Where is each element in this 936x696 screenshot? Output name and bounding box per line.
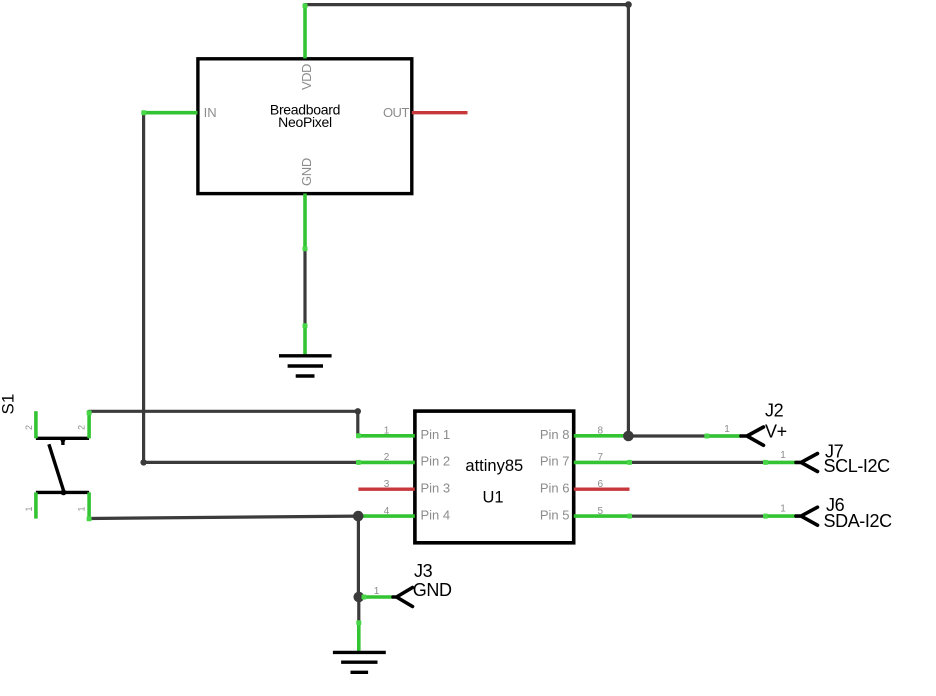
svg-text:Pin 8: Pin 8 bbox=[540, 427, 570, 442]
pin VDD leg bbox=[303, 5, 307, 59]
svg-text:IN: IN bbox=[204, 105, 217, 120]
connector J3 leg bbox=[364, 595, 394, 599]
wire IN to node A vertical bbox=[142, 113, 145, 463]
svg-text:Pin 4: Pin 4 bbox=[421, 507, 451, 522]
pin VDD label bbox=[299, 64, 314, 90]
svg-text:OUT: OUT bbox=[383, 105, 410, 120]
U1 pin 3 leg (unconnected) bbox=[358, 488, 414, 491]
wire U1 pin 5 to J6 bbox=[630, 514, 767, 517]
svg-text:2: 2 bbox=[24, 425, 34, 430]
ground GND1 pin leg bbox=[303, 325, 307, 355]
U1 pin 1 leg bbox=[358, 434, 414, 438]
U1 pin 4 leg bbox=[358, 514, 414, 518]
label Breadboard NeoPixel bbox=[270, 101, 340, 130]
connector J7 leg bbox=[765, 461, 796, 465]
junction J3 node bbox=[354, 592, 365, 603]
wire J3 node to ground bbox=[357, 597, 360, 622]
label U1 bbox=[482, 489, 503, 507]
svg-text:7: 7 bbox=[598, 452, 604, 463]
pin GND label of NeoPixel bbox=[299, 158, 314, 186]
svg-text:VDD: VDD bbox=[299, 64, 314, 90]
svg-text:Pin 2: Pin 2 bbox=[421, 454, 451, 469]
wire U1 pin 7 to J7 bbox=[630, 461, 767, 464]
connector J2 pin number bbox=[724, 424, 730, 435]
svg-text:1: 1 bbox=[384, 426, 390, 437]
wire NeoPixel GND down bbox=[303, 249, 306, 326]
U1 pin 7 leg bbox=[574, 461, 630, 465]
connector J6 labels bbox=[824, 495, 893, 531]
IC U1 attiny85 box bbox=[415, 411, 574, 543]
svg-text:8: 8 bbox=[598, 426, 604, 437]
svg-text:GND: GND bbox=[413, 580, 452, 600]
wire VDD rail top horizontal bbox=[305, 3, 628, 6]
pin OUT leg (unconnected) bbox=[412, 111, 468, 114]
pin GND leg of NeoPixel bbox=[303, 194, 307, 249]
connector J6 symbol bbox=[796, 507, 818, 525]
junction U1 pin 4 / S1 / ground bbox=[353, 511, 364, 522]
connector J3 labels bbox=[413, 561, 452, 600]
IC NeoPixel box bbox=[198, 59, 412, 194]
svg-text:SCL-I2C: SCL-I2C bbox=[824, 456, 891, 476]
switch S1 pin numbers bbox=[24, 425, 87, 512]
switch S1 reference label bbox=[0, 394, 18, 415]
wire V+ node to J2 bbox=[628, 434, 741, 437]
pin IN leg bbox=[144, 111, 198, 115]
ground GND2 pin leg bbox=[357, 622, 361, 652]
svg-text:J3: J3 bbox=[414, 561, 433, 581]
svg-text:Pin 1: Pin 1 bbox=[421, 427, 451, 442]
label attiny85 bbox=[465, 457, 523, 475]
switch S1 bbox=[36, 438, 89, 492]
switch S1 legs bbox=[36, 411, 89, 518]
pin IN label bbox=[204, 105, 217, 120]
svg-text:Pin 3: Pin 3 bbox=[421, 480, 451, 495]
svg-text:1: 1 bbox=[780, 450, 786, 461]
U1 pin name labels left bbox=[421, 427, 451, 522]
svg-text:2: 2 bbox=[77, 425, 87, 430]
junction node A bbox=[140, 459, 146, 465]
svg-text:Pin 7: Pin 7 bbox=[540, 454, 570, 469]
junction wire bend at U1 pin 1 bbox=[355, 408, 361, 414]
wire node A to U1 pin 2 bbox=[144, 461, 359, 464]
wire S1 pin 1 to U1 pin 4 bbox=[89, 516, 358, 518]
U1 pin numbers right bbox=[598, 426, 604, 517]
U1 pin name labels right bbox=[540, 427, 570, 522]
svg-text:3: 3 bbox=[384, 479, 390, 490]
junction top-right corner bbox=[625, 1, 632, 8]
wire U1 pin 4 down to J3 node bbox=[357, 516, 360, 597]
svg-text:Pin 5: Pin 5 bbox=[540, 507, 570, 522]
svg-text:NeoPixel: NeoPixel bbox=[278, 114, 332, 130]
svg-text:4: 4 bbox=[384, 506, 390, 517]
U1 pin numbers left bbox=[384, 426, 390, 517]
U1 pin 5 leg bbox=[574, 514, 630, 518]
connector J2 symbol bbox=[741, 427, 764, 445]
svg-text:U1: U1 bbox=[482, 489, 503, 507]
wire S1 pin 2 to U1 pin 1 bbox=[89, 411, 358, 436]
wire endpoint markers (connected, bright green) bbox=[87, 3, 768, 625]
svg-text:1: 1 bbox=[780, 504, 786, 515]
connector J7 labels bbox=[824, 441, 891, 476]
connector J3 symbol bbox=[393, 588, 413, 607]
connector J7 pin number bbox=[780, 450, 786, 461]
svg-text:attiny85: attiny85 bbox=[465, 457, 523, 475]
svg-text:S1: S1 bbox=[0, 394, 18, 415]
svg-text:5: 5 bbox=[598, 506, 604, 517]
connector J6 leg bbox=[765, 514, 796, 518]
svg-text:V+: V+ bbox=[765, 421, 787, 441]
U1 pin 6 leg (unconnected) bbox=[574, 488, 630, 491]
ground GND1 symbol bbox=[279, 356, 332, 376]
U1 pin 2 leg bbox=[358, 461, 414, 465]
connector J3 pin number bbox=[374, 586, 380, 597]
connector J6 pin number bbox=[780, 504, 786, 515]
svg-text:2: 2 bbox=[384, 452, 390, 463]
svg-text:1: 1 bbox=[374, 586, 380, 597]
ground GND2 symbol bbox=[333, 652, 386, 672]
svg-text:1: 1 bbox=[724, 424, 730, 435]
svg-text:6: 6 bbox=[598, 479, 604, 490]
svg-text:GND: GND bbox=[299, 158, 314, 186]
connector J7 symbol bbox=[796, 454, 818, 472]
switch S1 pivot dots bbox=[60, 437, 66, 495]
svg-text:J2: J2 bbox=[765, 400, 784, 420]
U1 pin 8 leg bbox=[574, 434, 630, 438]
svg-text:1: 1 bbox=[77, 506, 87, 511]
wire V+ rail right vertical bbox=[627, 5, 630, 436]
svg-text:SDA-I2C: SDA-I2C bbox=[824, 511, 893, 531]
junction U1 pin 8 / V+ rail / J2 bbox=[623, 431, 634, 442]
svg-text:1: 1 bbox=[24, 506, 34, 511]
svg-text:Pin 6: Pin 6 bbox=[540, 480, 570, 495]
pin OUT label bbox=[383, 105, 410, 120]
connector J2 leg bbox=[707, 434, 742, 438]
connector J2 labels bbox=[765, 400, 787, 441]
